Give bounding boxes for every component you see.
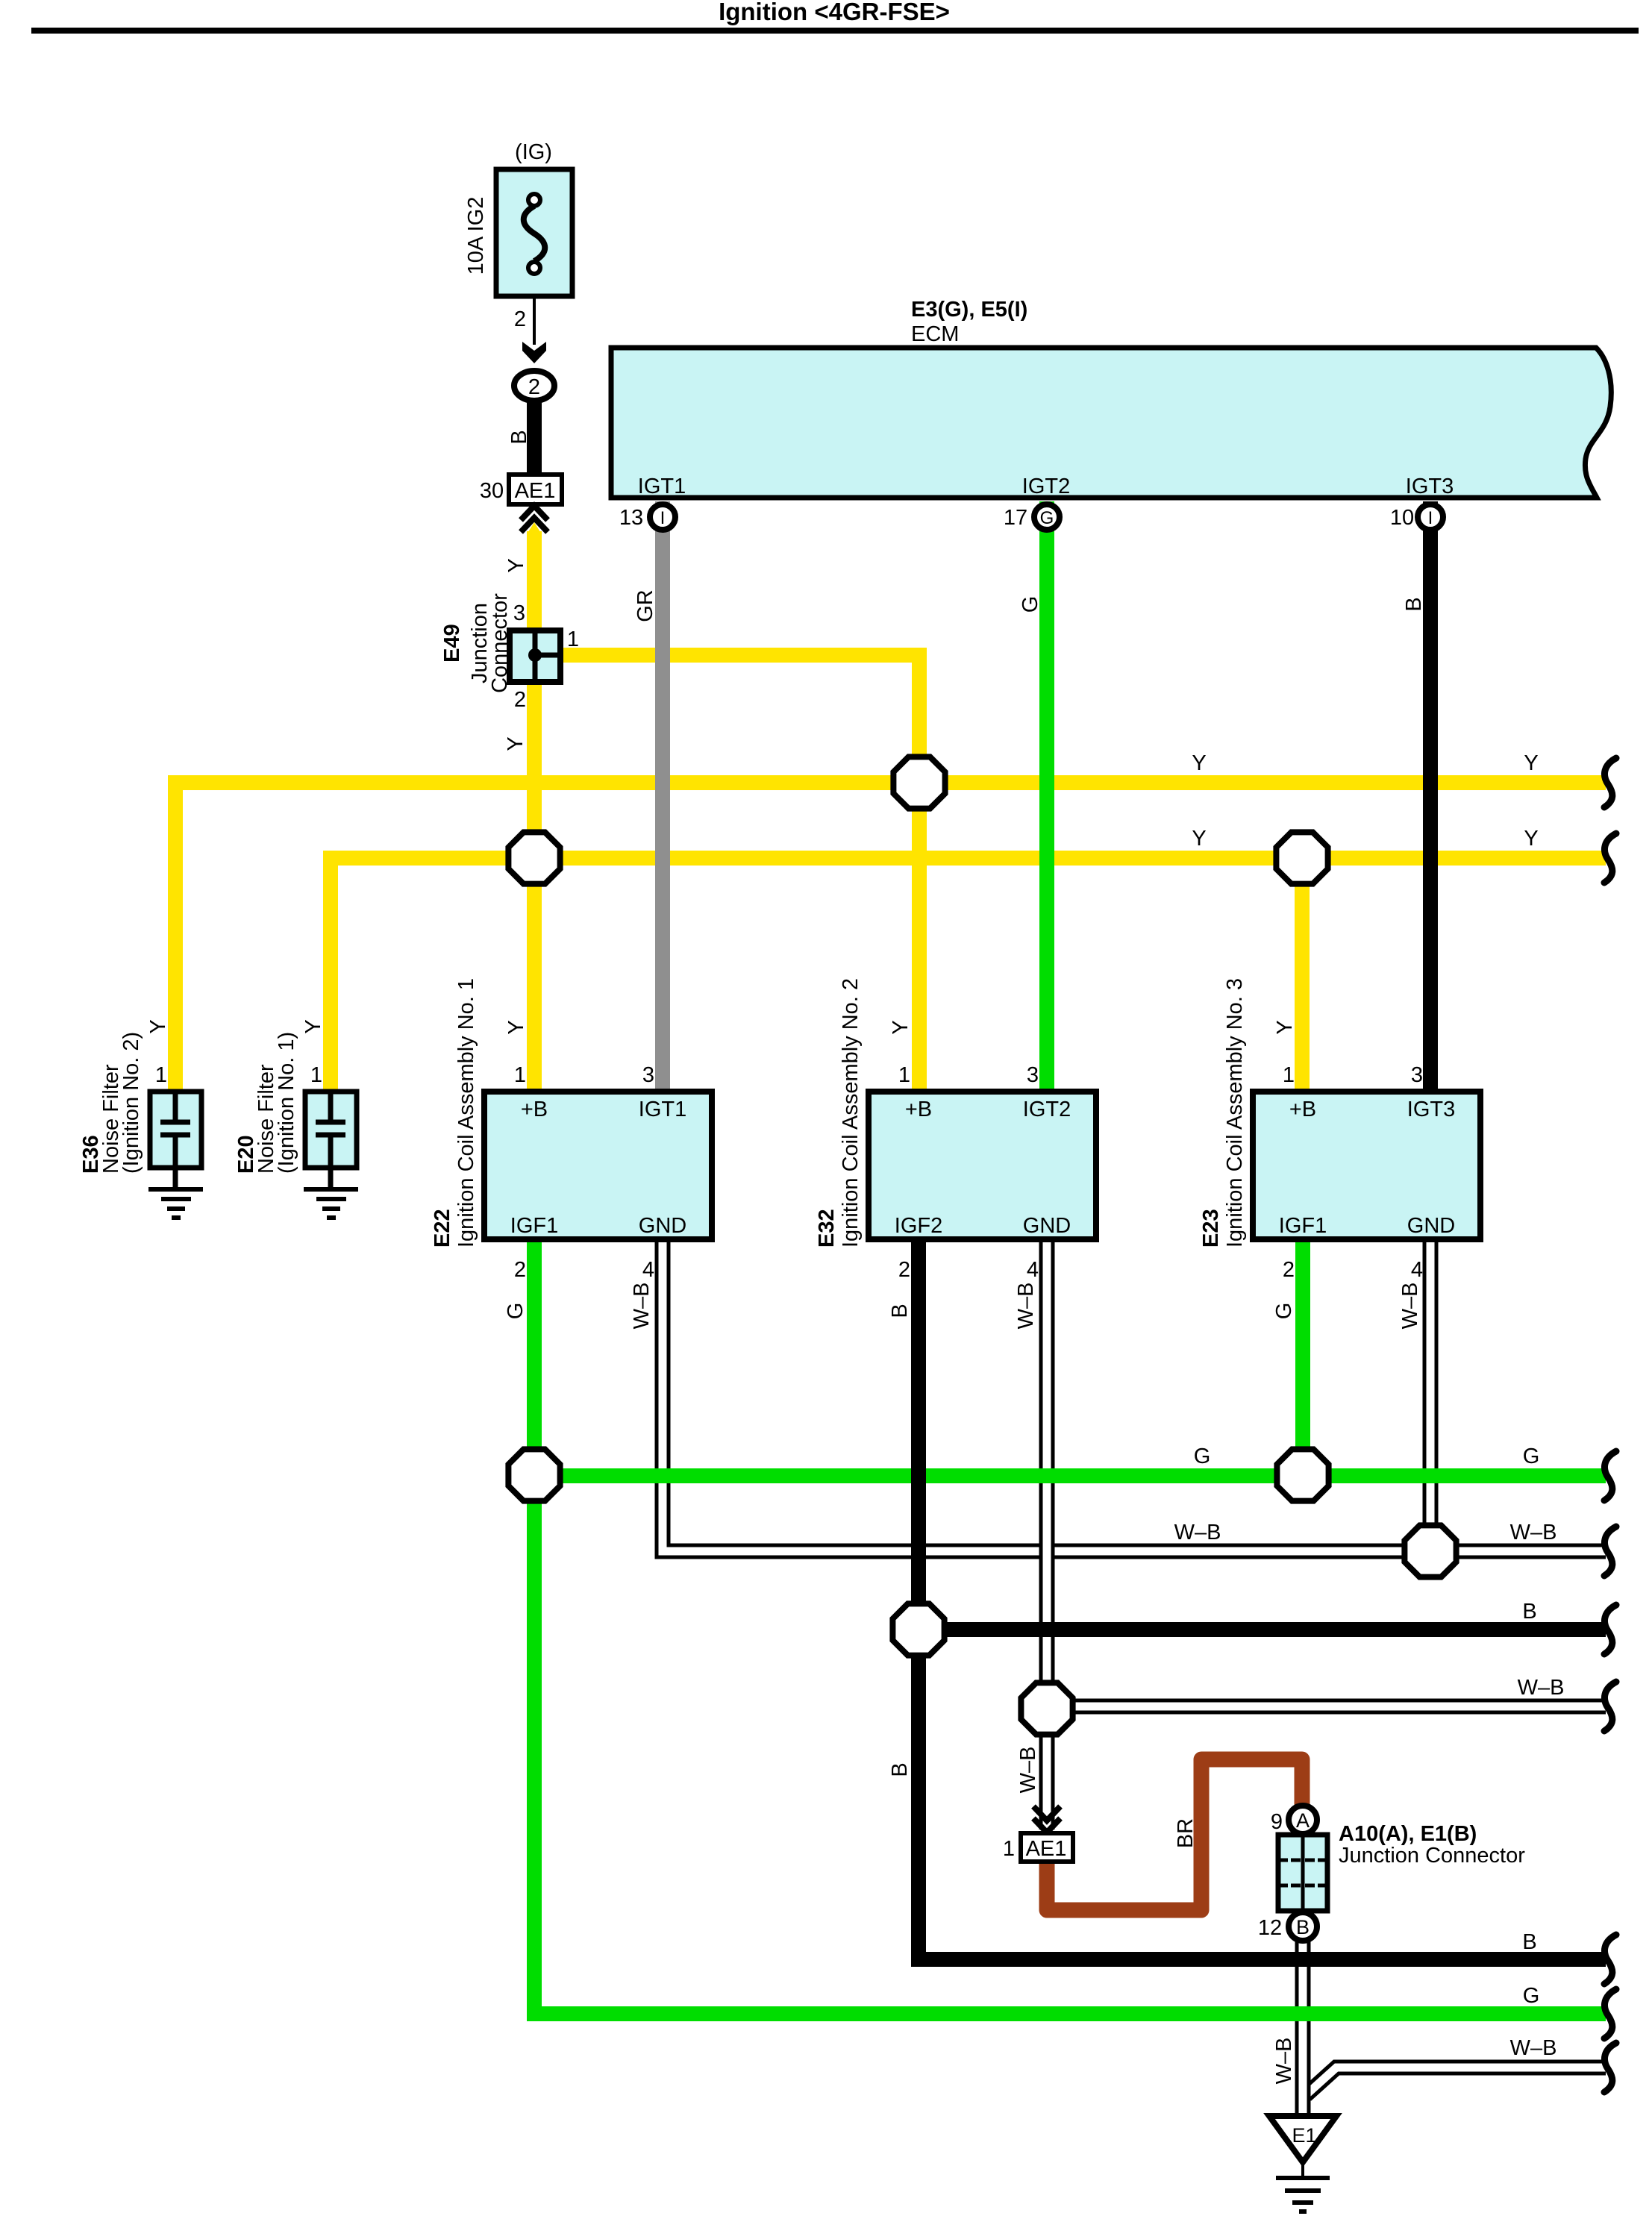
- noise filter E36 capacitor: [160, 1094, 190, 1189]
- svg-text:W–B: W–B: [1398, 1283, 1422, 1330]
- svg-text:GND: GND: [639, 1214, 686, 1238]
- connector oval 2: [514, 371, 554, 401]
- svg-text:Y: Y: [504, 1020, 528, 1034]
- svg-text:(Ignition No. 2): (Ignition No. 2): [119, 1032, 143, 1174]
- svg-text:E23: E23: [1199, 1209, 1223, 1248]
- fuse element symbol: [524, 206, 545, 261]
- svg-text:30: 30: [480, 479, 504, 503]
- svg-text:GR: GR: [633, 589, 657, 622]
- double chevron into AE1: [521, 506, 548, 532]
- break symbol Y line 2: [1604, 833, 1616, 883]
- svg-text:IGT3: IGT3: [1407, 1098, 1455, 1121]
- wire Y bus line 2 down to ignition coil 3 +B: [1295, 858, 1310, 1089]
- svg-text:E1: E1: [1292, 2124, 1316, 2147]
- svg-text:E32: E32: [815, 1209, 839, 1248]
- svg-text:ECM: ECM: [911, 322, 959, 346]
- svg-text:W–B: W–B: [1510, 2036, 1557, 2060]
- svg-text:G: G: [1040, 508, 1054, 528]
- wire G ECM IGT2 to coil 2 IGT2: [1039, 501, 1054, 1089]
- break symbol Y line 1: [1604, 758, 1616, 807]
- svg-text:IGT1: IGT1: [638, 475, 686, 498]
- svg-text:IGF2: IGF2: [895, 1214, 942, 1238]
- octagon junction on B wire: [892, 1603, 944, 1655]
- svg-text:4: 4: [1411, 1258, 1423, 1282]
- svg-text:B: B: [507, 430, 531, 444]
- ignition coil assembly no.1 E22 box: [484, 1092, 712, 1239]
- connector AE1 pin 1 box: [1021, 1833, 1073, 1862]
- svg-text:I: I: [1428, 508, 1433, 528]
- svg-text:B: B: [888, 1303, 912, 1318]
- svg-text:W–B: W–B: [630, 1283, 654, 1330]
- break symbol G line: [1604, 1451, 1616, 1500]
- svg-text:2: 2: [514, 1258, 526, 1282]
- svg-text:12: 12: [1258, 1916, 1282, 1940]
- svg-text:13: 13: [619, 506, 643, 530]
- octagon junction on G bus right: [1277, 1449, 1328, 1500]
- svg-text:Junction Connector: Junction Connector: [1339, 1844, 1525, 1868]
- svg-text:IGT2: IGT2: [1023, 1098, 1071, 1121]
- svg-text:W–B: W–B: [1014, 1283, 1038, 1330]
- break symbol W-B line 3: [1604, 2043, 1616, 2092]
- wire W-B coil 2 GND down to AE1: [1039, 1240, 1055, 1830]
- svg-text:BR: BR: [1174, 1818, 1198, 1848]
- break symbol B line: [1604, 1605, 1616, 1654]
- noise filter E36 ground: [148, 1189, 203, 1218]
- svg-text:Ignition Coil Assembly No. 1: Ignition Coil Assembly No. 1: [454, 978, 478, 1248]
- svg-text:(IG): (IG): [515, 140, 552, 164]
- svg-text:GND: GND: [1023, 1214, 1071, 1238]
- svg-text:Ignition Coil Assembly No. 2: Ignition Coil Assembly No. 2: [839, 978, 863, 1248]
- svg-text:Y: Y: [1192, 827, 1206, 851]
- svg-text:IGT2: IGT2: [1022, 475, 1070, 498]
- svg-text:G: G: [1523, 1984, 1540, 2008]
- svg-text:E3(G), E5(I): E3(G), E5(I): [911, 298, 1027, 322]
- svg-text:+B: +B: [905, 1098, 932, 1121]
- svg-text:10: 10: [1390, 506, 1414, 530]
- svg-text:Ignition Coil Assembly No. 3: Ignition Coil Assembly No. 3: [1223, 978, 1247, 1248]
- ground E1 stem and bars: [1301, 2162, 1304, 2178]
- wire Y horizontal bus line 2 (to noise filter E20): [331, 858, 1606, 1089]
- svg-text:Y: Y: [1524, 827, 1538, 851]
- noise filter E36 box: [150, 1092, 201, 1168]
- wire GR ECM IGT1 to coil 1 IGT1: [655, 501, 670, 1089]
- svg-text:E22: E22: [431, 1209, 454, 1248]
- svg-text:Y: Y: [1273, 1020, 1297, 1034]
- svg-text:B: B: [888, 1762, 912, 1777]
- svg-text:W–B: W–B: [1016, 1747, 1040, 1794]
- svg-text:AE1: AE1: [1026, 1837, 1067, 1861]
- svg-text:Y: Y: [146, 1019, 170, 1033]
- junction connector A10/E1 box: [1278, 1835, 1327, 1911]
- octagon junction on G bus left: [508, 1449, 560, 1500]
- ECM pin 10 circle (I): [1418, 504, 1443, 530]
- svg-text:G: G: [1194, 1445, 1211, 1468]
- svg-text:+B: +B: [1289, 1098, 1316, 1121]
- wire BR AE1 to junction connector A pin: [1047, 1759, 1302, 1910]
- break symbol G line 2: [1604, 1989, 1616, 2038]
- svg-text:GND: GND: [1407, 1214, 1455, 1238]
- ground E1 triangle: [1269, 2116, 1336, 2162]
- break symbol W-B line 2: [1604, 1682, 1616, 1731]
- svg-text:17: 17: [1004, 506, 1027, 530]
- wire G coil 1 IGF1 down and right to bus: [534, 1240, 1606, 2014]
- ignition coil assembly no.3 E23 box: [1253, 1092, 1480, 1239]
- svg-text:1: 1: [1003, 1837, 1015, 1861]
- svg-text:9: 9: [1271, 1810, 1283, 1834]
- octagon junction on W-B bus: [1404, 1525, 1456, 1577]
- svg-text:3: 3: [1027, 1063, 1039, 1087]
- svg-text:4: 4: [642, 1258, 654, 1282]
- svg-text:B: B: [1522, 1600, 1536, 1624]
- noise filter E20 capacitor: [316, 1094, 345, 1189]
- title rule: [31, 28, 1639, 34]
- wire B oval to AE1 connector: [527, 399, 542, 475]
- svg-text:Y: Y: [301, 1019, 325, 1033]
- svg-text:Y: Y: [1192, 751, 1206, 775]
- wire G horizontal bus line: [534, 1468, 1606, 1483]
- wire W-B coil 1 GND to bus line W-B: [663, 1240, 1606, 1551]
- ignition coil assembly no.2 E32 box: [869, 1092, 1096, 1239]
- noise filter E20 box: [305, 1092, 357, 1168]
- svg-text:AE1: AE1: [515, 479, 556, 503]
- wire Y E49 pin 2 down to ignition coil 1 +B: [527, 684, 542, 1089]
- svg-text:2: 2: [514, 307, 526, 331]
- svg-text:3: 3: [642, 1063, 654, 1087]
- svg-text:W–B: W–B: [1518, 1676, 1565, 1700]
- junction connector A10/E1 circle B pin 12: [1289, 1912, 1317, 1941]
- ECM pin 17 circle (G): [1034, 504, 1060, 530]
- yellow wire pointed tip into chevron: [527, 522, 542, 534]
- svg-text:2: 2: [898, 1258, 910, 1282]
- ECM box: [611, 348, 1611, 498]
- svg-text:I: I: [660, 508, 666, 528]
- svg-text:E49: E49: [440, 624, 464, 663]
- wire W-B branch to bus at bottom right: [1306, 2068, 1606, 2095]
- svg-text:B: B: [1296, 1916, 1310, 1938]
- svg-text:G: G: [1523, 1445, 1540, 1468]
- svg-text:Y: Y: [504, 736, 528, 751]
- wire B fuse to 2-pin oval: [533, 298, 536, 345]
- arrowhead from fuse: [522, 342, 546, 363]
- svg-text:+B: +B: [521, 1098, 548, 1121]
- svg-text:W–B: W–B: [1510, 1521, 1557, 1544]
- svg-text:A: A: [1296, 1809, 1310, 1832]
- wire Y horizontal bus line 1 (to noise filter E36): [175, 783, 1606, 1089]
- svg-text:Y: Y: [1524, 751, 1538, 775]
- break symbol B line 2: [1604, 1935, 1616, 1984]
- wire W-B junction connector B pin down to E1 ground: [1295, 1936, 1311, 2119]
- svg-text:IGT3: IGT3: [1406, 475, 1454, 498]
- svg-text:1: 1: [567, 627, 579, 651]
- svg-text:3: 3: [1411, 1063, 1423, 1087]
- ECM pin 13 circle (I): [650, 504, 675, 530]
- svg-text:3: 3: [513, 601, 525, 625]
- svg-text:A10(A), E1(B): A10(A), E1(B): [1339, 1822, 1477, 1846]
- svg-text:Y: Y: [889, 1020, 913, 1034]
- svg-text:1: 1: [1283, 1063, 1295, 1087]
- svg-text:2: 2: [514, 688, 526, 712]
- svg-text:10A IG2: 10A IG2: [464, 197, 488, 275]
- svg-text:Connector: Connector: [488, 593, 512, 693]
- wire W-B branch from octagon to bus right: [1047, 1699, 1606, 1715]
- svg-text:W–B: W–B: [1272, 2038, 1296, 2085]
- wire B coil 2 IGF2 down corner right to bus: [919, 1240, 1606, 1959]
- svg-text:1: 1: [898, 1063, 910, 1087]
- svg-text:2: 2: [528, 375, 540, 399]
- svg-text:1: 1: [155, 1063, 167, 1087]
- svg-text:Ignition <4GR-FSE>: Ignition <4GR-FSE>: [719, 0, 950, 25]
- noise filter E20 ground: [304, 1189, 358, 1218]
- svg-text:IGF1: IGF1: [510, 1214, 558, 1238]
- svg-text:1: 1: [310, 1063, 322, 1087]
- svg-text:IGF1: IGF1: [1279, 1214, 1327, 1238]
- svg-text:G: G: [1019, 596, 1042, 613]
- octagon junction on W-B wire 2: [1021, 1683, 1072, 1734]
- svg-text:G: G: [1272, 1303, 1296, 1320]
- svg-text:B: B: [1522, 1930, 1536, 1954]
- fuse 10A IG2 box: [496, 169, 572, 296]
- wire W-B coil 3 GND down to octagon junction: [1423, 1240, 1439, 1551]
- wire Y fuse to E49 pin 3: [527, 531, 542, 628]
- svg-text:W–B: W–B: [1174, 1521, 1221, 1544]
- junction connector E49 box: [510, 630, 560, 682]
- svg-text:B: B: [1402, 597, 1426, 611]
- svg-text:1: 1: [514, 1063, 526, 1087]
- double chevron into AE1 lower: [1033, 1806, 1060, 1832]
- wire B branch from octagon right to bus: [919, 1622, 1606, 1637]
- octagon junction on Y line 2 left: [508, 832, 560, 883]
- wire G coil 3 IGF1 down to octagon: [1295, 1240, 1310, 1475]
- svg-text:IGT1: IGT1: [639, 1098, 686, 1121]
- svg-text:2: 2: [1283, 1258, 1295, 1282]
- svg-text:4: 4: [1027, 1258, 1039, 1282]
- svg-text:Y: Y: [504, 558, 528, 572]
- break symbol W-B line: [1604, 1527, 1616, 1576]
- connector AE1 pin 30 box: [509, 475, 562, 504]
- junction connector A10/E1 circle A pin 9: [1289, 1806, 1317, 1834]
- wire Y E49 pin 1 to ignition coil 2 +B: [563, 655, 919, 1089]
- octagon junction on Y line 2 right: [1276, 832, 1327, 883]
- wire B ECM IGT3 to coil 3 IGT3: [1423, 501, 1438, 1089]
- svg-text:(Ignition No. 1): (Ignition No. 1): [275, 1032, 298, 1174]
- svg-text:G: G: [504, 1303, 528, 1320]
- octagon junction on Y line 1: [893, 757, 945, 808]
